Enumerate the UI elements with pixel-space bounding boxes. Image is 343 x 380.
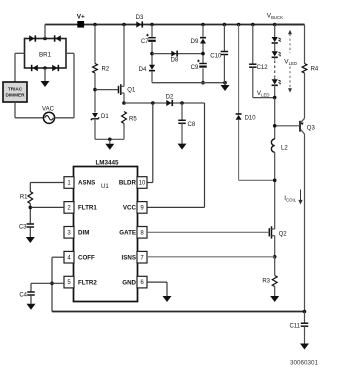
svg-text:C7: C7 (141, 39, 149, 45)
svg-text:Q1: Q1 (127, 88, 136, 94)
svg-text:R4: R4 (311, 67, 319, 73)
svg-text:R2: R2 (102, 66, 110, 72)
svg-text:FLTR1: FLTR1 (78, 205, 97, 212)
svg-text:DIM: DIM (78, 230, 89, 237)
svg-text:R5: R5 (129, 117, 137, 123)
svg-text:C11: C11 (289, 324, 300, 330)
svg-text:C9: C9 (191, 65, 199, 71)
svg-text:FLTR2: FLTR2 (78, 279, 97, 286)
svg-text:GND: GND (122, 279, 136, 286)
svg-text:DIMMER: DIMMER (5, 93, 25, 98)
svg-text:D3: D3 (136, 15, 144, 21)
svg-text:C3: C3 (19, 225, 27, 231)
svg-text:COFF: COFF (78, 254, 95, 261)
svg-text:LM3445: LM3445 (95, 160, 119, 167)
svg-text:L2: L2 (281, 146, 288, 152)
svg-text:TRIAC: TRIAC (8, 87, 23, 92)
svg-text:R3: R3 (262, 279, 270, 285)
svg-text:R1: R1 (20, 194, 28, 200)
svg-text:C4: C4 (19, 293, 27, 299)
svg-text:V+: V+ (77, 14, 85, 21)
svg-text:C10: C10 (210, 54, 222, 60)
svg-text:BLDR: BLDR (119, 180, 137, 187)
svg-text:ISNS: ISNS (122, 254, 136, 261)
svg-text:D4: D4 (139, 67, 147, 73)
svg-text:D8: D8 (171, 58, 179, 64)
svg-text:D1: D1 (101, 114, 109, 120)
svg-text:C8: C8 (188, 122, 196, 128)
svg-text:C12: C12 (257, 65, 269, 71)
svg-text:VAC: VAC (42, 107, 55, 113)
svg-text:D2: D2 (166, 94, 174, 100)
svg-text:ASNS: ASNS (78, 180, 95, 187)
svg-text:Q2: Q2 (279, 231, 288, 237)
svg-text:Q3: Q3 (307, 126, 316, 132)
svg-text:GATE: GATE (119, 230, 136, 237)
svg-text:U1: U1 (101, 184, 109, 190)
svg-text:D9: D9 (191, 39, 199, 45)
svg-text:30060301: 30060301 (290, 359, 319, 366)
svg-text:BR1: BR1 (39, 52, 52, 59)
svg-text:10: 10 (139, 181, 146, 187)
svg-text:D10: D10 (245, 116, 257, 122)
svg-text:VCC: VCC (123, 205, 137, 212)
